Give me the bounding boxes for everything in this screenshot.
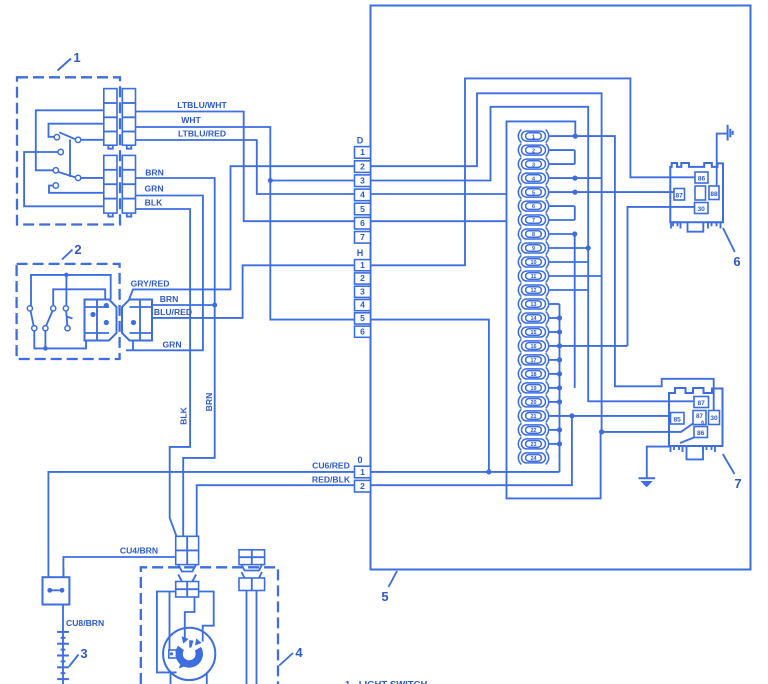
svg-text:0: 0 (357, 455, 362, 465)
fuse 22 (518, 423, 562, 436)
wire: D2 ring down to junction (371, 93, 602, 432)
wires from right connector to bottom (247, 591, 257, 684)
wire BLK from box 1 down to CU4 connector (136, 209, 191, 536)
svg-text:7: 7 (532, 218, 535, 224)
fuse 10 (518, 255, 588, 268)
svg-text:GRN: GRN (162, 340, 181, 350)
junction node D2 ring / 87a feed (599, 429, 604, 434)
svg-text:6: 6 (733, 254, 740, 269)
svg-text:7: 7 (360, 232, 365, 242)
svg-text:BLK: BLK (179, 406, 189, 424)
box 1 switch common E (75, 175, 80, 180)
box 2 harness half contact dot (131, 320, 136, 325)
svg-text:19: 19 (531, 386, 537, 392)
wire LTBLU/RED from box 1 to D4 (136, 140, 355, 194)
fuse 5 (518, 186, 674, 199)
fuse 12 (518, 283, 588, 296)
svg-text:CU6/RED: CU6/RED (312, 461, 350, 471)
ground from relay U7 (639, 447, 671, 488)
svg-text:6: 6 (532, 204, 535, 210)
svg-text:LTBLU/WHT: LTBLU/WHT (177, 100, 227, 110)
wire: CU6/RED interior run to supply bus (371, 471, 560, 473)
fuse 15 (518, 325, 562, 338)
connector strip D (1-7) on fuse box left edge (355, 147, 371, 244)
box 2 connector plug (switch half) (85, 300, 117, 341)
svg-text:5: 5 (360, 313, 365, 323)
svg-text:3: 3 (360, 176, 365, 186)
box 1 reference label 1 (58, 50, 81, 71)
box 1 lower switch lever (58, 172, 75, 177)
wire RED/BLK from CU4 connector to connector 0 cell 2 (197, 485, 355, 536)
relay U7 reference label 7 (723, 454, 742, 491)
fuse 18 (518, 367, 562, 380)
wire: D4 into main riser (371, 193, 507, 195)
fuse 4 (518, 172, 601, 185)
svg-text:30: 30 (698, 206, 706, 213)
relay U7 bottom terminal tabs (671, 446, 716, 459)
wire motor feed center (185, 597, 195, 638)
box 1 wire common E to lower cell 2 (81, 177, 104, 179)
svg-text:86: 86 (698, 176, 706, 183)
svg-text:5: 5 (360, 204, 365, 214)
main riser: top hook over fuse 1, down to lower run joining D2 junction (507, 121, 601, 498)
motor bottom leads (171, 672, 207, 684)
svg-text:2: 2 (74, 242, 81, 257)
svg-text:14: 14 (531, 316, 537, 322)
wire WHT from box 1 to D3 and H5 (136, 127, 355, 320)
svg-text:BLK: BLK (145, 198, 163, 208)
fuse 14 (518, 311, 562, 324)
box 2 switch levers (31, 311, 73, 326)
fuse 9 (518, 241, 591, 254)
box 1 wire contact F to lower cell 3 (49, 186, 104, 193)
svg-text:1: 1 (73, 50, 80, 65)
wire: RED/BLK interior run up to fuse 21 wire (371, 416, 572, 485)
relay U7 internal link to pin 86 (680, 438, 694, 444)
connector CU4 lower half (176, 575, 199, 598)
svg-text:CU8/BRN: CU8/BRN (66, 618, 104, 628)
wire junction to D3 (270, 180, 354, 182)
fuse 23 (518, 437, 562, 450)
svg-text:4: 4 (532, 176, 535, 182)
svg-text:11: 11 (531, 274, 537, 280)
relay U7 pin 86 (694, 427, 708, 438)
box 1 switch contact B (54, 135, 59, 140)
svg-text:21: 21 (531, 414, 537, 420)
wire BLU/RED from box 2 to H1 (152, 265, 355, 318)
svg-text:1: 1 (532, 134, 535, 140)
relay U6 body (670, 163, 723, 222)
svg-text:BRN: BRN (160, 294, 179, 304)
junction BRN box1/box2 (212, 303, 217, 308)
connector in box 4 right upper half (239, 550, 265, 571)
box 2 wire contact to bottom junction (44, 331, 46, 349)
svg-text:1: 1 (360, 467, 365, 477)
fuse 7 (518, 213, 575, 226)
wire CU6/RED from battery box to connector 0 cell 1 (48, 472, 354, 577)
svg-text:6: 6 (360, 218, 365, 228)
junction node H5 / CU6 RED (486, 469, 491, 474)
svg-text:7: 7 (734, 476, 741, 491)
box 1 wire upper cell 2 to lower switch contact (36, 110, 104, 170)
svg-text:GRY/RED: GRY/RED (131, 279, 170, 289)
svg-text:17: 17 (531, 358, 537, 364)
fuse box 5 outline (371, 6, 751, 570)
box 1 switch contact A (53, 168, 58, 173)
svg-text:2: 2 (360, 161, 365, 171)
relay U6 pin 87 (674, 189, 685, 201)
box 1 upper connector (harness side) (122, 89, 135, 149)
fuse 21 (518, 409, 670, 422)
box 2 junction bottom wire (43, 346, 48, 351)
connector strip H (1-6) on fuse box left edge (355, 260, 371, 338)
svg-text:88: 88 (710, 191, 718, 198)
junction WHT at D3 (268, 178, 273, 183)
wire motor feed left (157, 592, 177, 673)
fuse 1 (518, 130, 578, 143)
svg-text:BRN: BRN (204, 393, 214, 412)
relay U6 reference label 6 (723, 228, 741, 269)
fuse 20 (518, 395, 562, 408)
connector CU4 upper half (176, 536, 199, 571)
wire: D6 into main riser (371, 220, 507, 222)
svg-text:4: 4 (360, 300, 365, 310)
svg-text:4: 4 (295, 645, 303, 660)
svg-text:1: 1 (360, 260, 365, 270)
svg-text:3: 3 (532, 162, 535, 168)
relay U6 pin 30 (695, 203, 709, 214)
relay U7 pin 87a (693, 411, 706, 426)
svg-text:2: 2 (360, 273, 365, 283)
wire BRN from box 1 joining box 2 BRN (136, 178, 215, 536)
svg-text:22: 22 (531, 428, 537, 434)
box 2 top bus wire (31, 275, 111, 306)
svg-text:16: 16 (531, 344, 537, 350)
wire: junction to relay 7 pin 87a (602, 422, 696, 432)
wire: fuse 1 to relay 7 pin 30 (stepped) (575, 136, 713, 410)
relay U6 coil box (695, 186, 706, 200)
relay U6 bottom terminal tabs (671, 222, 721, 234)
svg-text:WHT: WHT (181, 115, 201, 125)
box 1 lower connector (switch side) (104, 155, 117, 216)
svg-text:LTBLU/RED: LTBLU/RED (178, 129, 226, 139)
relay U6 pin 86 (695, 172, 708, 183)
svg-text:12: 12 (531, 288, 537, 294)
svg-text:18: 18 (531, 372, 537, 378)
turn signal switch box 2 (dashed) (17, 264, 120, 359)
svg-text:8: 8 (532, 232, 535, 238)
wire battery box to supply chain (62, 605, 64, 684)
svg-text:H: H (357, 248, 364, 258)
box 1 wire upper cell 3 to upper switch contact (49, 124, 104, 137)
box 2 reference label 2 (62, 242, 82, 260)
svg-text:5: 5 (381, 589, 388, 604)
svg-text:24: 24 (531, 456, 537, 462)
fuse 13 (518, 297, 559, 310)
svg-text:85: 85 (674, 417, 682, 424)
relay U7 body (669, 388, 723, 446)
wire motor feed inner (170, 592, 214, 654)
fuse 3 (518, 158, 575, 171)
wire: D3 ring to relay 7 pin 87 (371, 107, 695, 402)
svg-text:3: 3 (80, 646, 87, 661)
relay U7 pin 30 (709, 411, 720, 425)
svg-text:1: 1 (360, 147, 365, 157)
light switch assembly box 1 (dashed) (17, 77, 120, 224)
wire CU4/BRN from CU4 connector to battery box (63, 557, 175, 577)
svg-text:BRN: BRN (145, 168, 164, 178)
svg-text:20: 20 (531, 400, 537, 406)
wire: H1 ring to relay 6 pin 86 (371, 78, 696, 265)
svg-text:4: 4 (360, 190, 365, 200)
svg-text:86: 86 (697, 430, 705, 437)
svg-text:2: 2 (532, 148, 535, 154)
box 1 upper connector (switch side) (104, 89, 117, 149)
fuse 16 (518, 339, 627, 352)
item 3 reference label 3 (69, 646, 88, 667)
wire: fuse 16 riser to relay 6 pin 30 (628, 207, 695, 346)
wiper motor M (163, 628, 215, 680)
wire GRN from box 1 to box 2 GRN (126, 196, 203, 351)
connector strip 0 (1-2) on fuse box left edge (355, 466, 371, 492)
fuse 11 (518, 269, 601, 282)
relay U7 pin 87 (694, 397, 709, 408)
connector in box 4 right lower half (239, 572, 265, 591)
box 1 wire common C to upper cell 4 (81, 139, 104, 141)
relay U6 pin 88 (709, 186, 719, 200)
wiper motor dashed box 4 (141, 567, 278, 684)
box 2 junction on top bus (64, 273, 69, 278)
wire: H5 down to CU6/RED run (371, 320, 489, 472)
svg-text:3: 3 (360, 286, 365, 296)
svg-text:6: 6 (360, 326, 365, 336)
fuse 2 (518, 144, 575, 157)
supply chain bars item 3 (57, 632, 69, 679)
fuse 8 (518, 227, 577, 240)
svg-text:5: 5 (532, 190, 535, 196)
box 2 second bus wire (53, 289, 105, 305)
wire GRY/RED from box 2 to D2 (129, 166, 355, 299)
svg-text:GRN: GRN (144, 184, 163, 194)
svg-text:23: 23 (531, 442, 537, 448)
link fuse 2 to fuse 3 (574, 150, 576, 164)
box 1 switch common C (75, 137, 80, 142)
svg-text:9: 9 (532, 246, 535, 252)
svg-text:10: 10 (531, 260, 537, 266)
svg-text:RED/BLK: RED/BLK (312, 475, 351, 485)
box 2 switch contact circles lower row (32, 326, 70, 331)
ground from relay U6 pin 88 (717, 125, 733, 186)
link fuse 6 to fuse 7 (574, 206, 576, 220)
svg-text:13: 13 (531, 302, 537, 308)
relay U7 pin 85 (671, 413, 685, 425)
box 2 connector plug (harness half) (122, 300, 152, 341)
box 4 reference label 4 (279, 645, 303, 666)
box 1 switch contact F (53, 183, 58, 188)
wire GRN drop from box 2 connector (132, 341, 134, 351)
box 1 upper switch lever (59, 132, 75, 139)
fuse 17 (518, 353, 562, 366)
box 1 link between switch decks (69, 140, 71, 177)
box 2 switch contact circles upper row (27, 306, 68, 311)
svg-text:BLU/RED: BLU/RED (154, 307, 192, 317)
box 1 lower connector (harness side) (122, 155, 135, 216)
fuse 24 (518, 451, 548, 464)
svg-text:1 - LIGHT SWITCH: 1 - LIGHT SWITCH (345, 680, 427, 684)
fuse 6 (518, 200, 575, 213)
svg-text:15: 15 (531, 330, 537, 336)
box 1 switch contact D (58, 149, 63, 154)
svg-text:CU4/BRN: CU4/BRN (120, 546, 158, 556)
svg-text:87: 87 (698, 400, 706, 407)
svg-text:D: D (357, 136, 364, 146)
svg-text:a: a (701, 420, 704, 426)
box 2 bottom wire (34, 331, 86, 349)
wire LTBLU/WHT from box 1 to D6 (136, 112, 355, 222)
box 2 wire junction drop to contact (65, 275, 67, 306)
wire BRN from box 2 connector (152, 304, 215, 306)
box 2 connector plug contact dots (90, 303, 109, 325)
battery feed box 3 fuse link (43, 568, 70, 605)
svg-text:30: 30 (710, 415, 718, 422)
svg-text:2: 2 (360, 481, 365, 491)
fuse box 5 reference label 5 (381, 571, 397, 604)
bus from fuse 8 down to fuse 19 (574, 234, 576, 388)
fuse 19 (518, 381, 562, 394)
svg-text:87: 87 (676, 193, 684, 200)
box 1 wire contact D to lower cell 4 (24, 152, 104, 206)
common supply bus fuses 13-23 down to CU6/RED run (559, 304, 561, 472)
